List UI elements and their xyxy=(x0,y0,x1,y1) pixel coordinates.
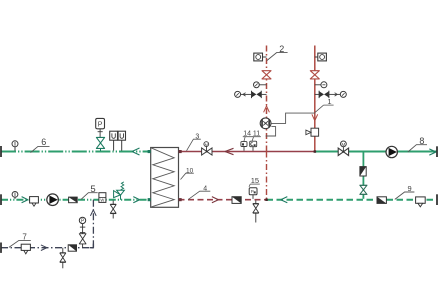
svg-text:10: 10 xyxy=(186,167,194,174)
svg-text:9: 9 xyxy=(408,184,412,193)
svg-text:2: 2 xyxy=(279,44,284,54)
svg-text:5: 5 xyxy=(90,184,95,195)
svg-text:P: P xyxy=(98,122,103,129)
svg-text:M: M xyxy=(205,142,208,147)
svg-text:M: M xyxy=(342,142,346,147)
svg-text:6: 6 xyxy=(41,137,46,147)
svg-text:7: 7 xyxy=(22,233,27,242)
svg-text:1: 1 xyxy=(327,97,331,106)
svg-text:3: 3 xyxy=(195,134,199,141)
svg-text:8: 8 xyxy=(419,136,424,146)
svg-text:4: 4 xyxy=(203,185,207,192)
svg-text:P: P xyxy=(251,189,254,194)
svg-text:W: W xyxy=(100,198,104,203)
